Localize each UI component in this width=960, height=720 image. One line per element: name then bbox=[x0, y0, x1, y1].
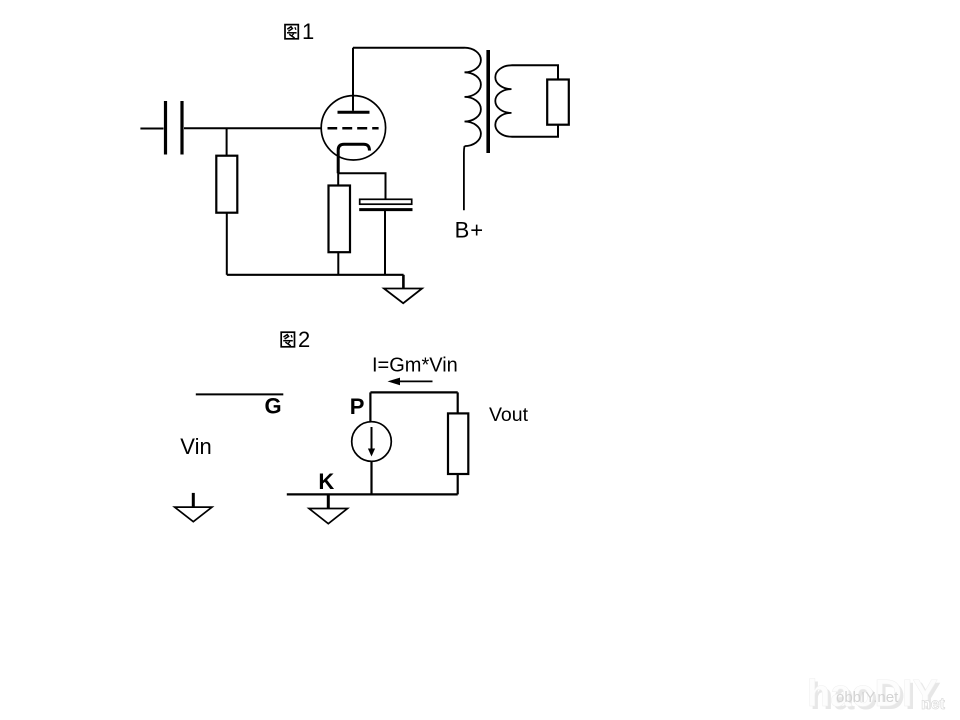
resistor R2 cathode bbox=[329, 186, 351, 253]
wire right branch down bbox=[457, 392, 459, 413]
svg-text:obbIY.net: obbIY.net bbox=[836, 689, 899, 706]
svg-text:P: P bbox=[350, 394, 365, 419]
capacitor C1 input coupling: left lead bbox=[140, 128, 163, 130]
svg-text:net: net bbox=[921, 696, 946, 713]
ground (figure 1) bbox=[384, 289, 422, 304]
watermark haoDIY.net bbox=[807, 673, 946, 718]
tube V1 grid (dashed) bbox=[328, 127, 379, 130]
wire R1 bottom lead bbox=[226, 213, 228, 275]
capacitor C1 left plate bbox=[164, 101, 167, 155]
wire P down to current source bbox=[369, 392, 371, 421]
wire P top rail bbox=[370, 391, 457, 393]
tube V1 plate bar bbox=[338, 111, 370, 114]
wire C2 bottom lead bbox=[384, 211, 386, 275]
wire Vin ground tick bbox=[192, 493, 195, 508]
wire G lead (grid) bbox=[196, 393, 283, 395]
svg-text:1: 1 bbox=[302, 19, 314, 44]
wire junction down to R1 bbox=[226, 128, 228, 155]
current source I1 arrow bbox=[371, 427, 373, 450]
transformer T1 primary winding bbox=[465, 48, 481, 146]
wire bottom rail (K) bbox=[287, 493, 458, 495]
capacitor C2 bypass bottom plate bbox=[359, 208, 412, 211]
transformer T1 secondary winding bbox=[495, 65, 511, 136]
wire K ground tick bbox=[327, 494, 330, 509]
resistor RL output bbox=[448, 413, 468, 474]
figure 1 label 图1 bbox=[285, 25, 298, 39]
wire R2 bottom lead bbox=[337, 252, 339, 275]
figure 2 label 图2 bbox=[281, 332, 294, 347]
wire RL bottom lead bbox=[457, 474, 459, 494]
wire current source to bottom rail bbox=[370, 461, 372, 494]
wire cathode lead down to R2 bbox=[337, 172, 339, 186]
wire plate to transformer top bbox=[353, 47, 465, 49]
resistor R1 grid leak bbox=[216, 156, 237, 213]
svg-text:G: G bbox=[265, 393, 282, 418]
ground (K) bbox=[309, 509, 348, 524]
wire B+ lead bbox=[463, 146, 466, 210]
svg-text:I=Gm*Vin: I=Gm*Vin bbox=[372, 355, 458, 377]
wire load bottom to secondary bbox=[512, 125, 559, 137]
svg-text:B+: B+ bbox=[455, 217, 485, 242]
wire bus to ground bbox=[402, 275, 405, 289]
capacitor C1 right plate bbox=[180, 101, 183, 155]
wire cathode branch to C2 bbox=[338, 173, 385, 199]
svg-text:Vin: Vin bbox=[180, 434, 211, 459]
ground (Vin) bbox=[175, 507, 212, 522]
transformer T1 core bbox=[486, 50, 490, 153]
wire secondary top to load bbox=[512, 65, 559, 79]
svg-text:2: 2 bbox=[298, 327, 310, 352]
tube V1 cathode hook bbox=[338, 144, 369, 173]
wire bottom ground bus bbox=[227, 274, 404, 276]
svg-text:K: K bbox=[318, 469, 334, 494]
current source I1 circle bbox=[352, 422, 392, 462]
op-amp? no: vacuum tube V1 envelope bbox=[321, 96, 385, 160]
wire grid node: C1 to tube grid bbox=[184, 127, 322, 129]
resistor R3 speaker load bbox=[547, 80, 569, 125]
wire plate lead bbox=[352, 48, 354, 111]
capacitor C2 bypass top plate bbox=[360, 199, 412, 204]
current direction arrow bbox=[396, 380, 433, 382]
svg-text:Vout: Vout bbox=[489, 404, 529, 426]
